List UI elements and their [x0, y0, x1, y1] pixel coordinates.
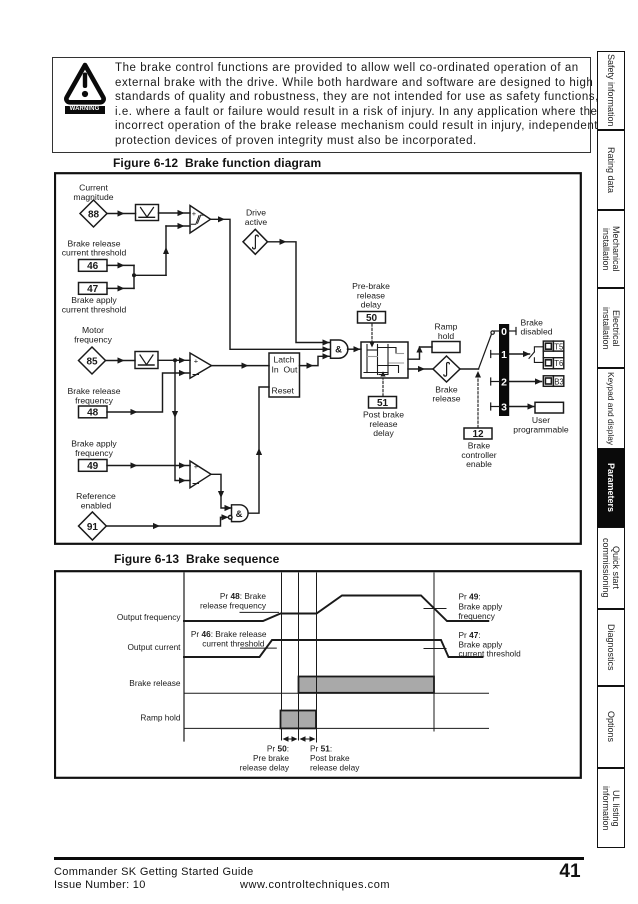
svg-text:Pr 49:: Pr 49:	[459, 592, 481, 602]
tab Diagnostics	[597, 609, 625, 687]
svg-text:delay: delay	[361, 300, 382, 310]
terminal B3	[543, 376, 564, 387]
footer rule	[54, 857, 584, 860]
label Brake release	[432, 384, 460, 403]
wire 47 to junction	[107, 285, 134, 291]
parameter 91 Reference enabled diamond	[79, 512, 107, 540]
comparator U1 (current)	[190, 206, 211, 234]
wire 49 to comparator3	[107, 462, 190, 468]
brake release bar	[299, 677, 435, 693]
svg-text:Brake release: Brake release	[129, 678, 181, 688]
wire abs2 to comparator2 with junction	[158, 357, 190, 363]
figure 6-12 title	[113, 156, 321, 170]
svg-text:Latch: Latch	[273, 354, 294, 364]
time marker t1	[281, 573, 283, 740]
tab Electrical installation	[597, 288, 625, 368]
wire Drive active to AND gate	[268, 239, 331, 346]
svg-text:Pr 48: Brake: Pr 48: Brake	[220, 591, 267, 601]
node 2 left stub	[491, 378, 499, 385]
figure 6-13 frame	[55, 571, 581, 778]
brake release baseline	[184, 692, 489, 694]
label Post brake release delay	[363, 410, 404, 439]
Drive active diamond	[243, 229, 268, 254]
wire comparator2 to Latch In	[212, 363, 270, 369]
label Brake apply frequency	[71, 439, 117, 458]
time marker t4	[433, 573, 435, 731]
selector digits	[501, 326, 507, 414]
wire node 2 to terminal B3	[509, 378, 542, 384]
svg-text:Output current: Output current	[127, 642, 181, 652]
warning box	[52, 57, 591, 153]
ramp hold baseline	[184, 727, 489, 729]
AND gate U4 (brake release logic)	[331, 340, 348, 358]
svg-text:programmable: programmable	[513, 424, 569, 434]
Pr 48 leader line	[240, 611, 279, 613]
time axis	[183, 573, 185, 741]
svg-text:+: +	[194, 462, 199, 471]
AND gate U5 (reset logic)	[228, 505, 248, 522]
magnitude block (abs2)	[135, 352, 158, 369]
svg-text:51: 51	[377, 398, 389, 409]
svg-text:current threshold: current threshold	[459, 649, 522, 659]
tab Parameters (active)	[597, 449, 625, 527]
svg-text:current threshold: current threshold	[62, 304, 127, 314]
svg-text:enabled: enabled	[81, 500, 112, 510]
FIGURE 6-13 DIAGRAM SVG	[54, 570, 582, 780]
parameter box 12	[464, 428, 492, 440]
tab Quick start commissioning	[597, 527, 625, 609]
parameter box 46	[79, 260, 108, 273]
output current waveform	[184, 640, 483, 657]
svg-text:In: In	[272, 364, 279, 374]
svg-text:release delay: release delay	[240, 763, 290, 773]
dashed wire 51 to delay block	[380, 371, 385, 396]
label Pr 48 Brake release frequency	[200, 591, 267, 611]
label Brake release current threshold	[62, 238, 127, 257]
label Pr 46 Brake release current threshold	[191, 629, 267, 649]
svg-text:12: 12	[472, 429, 484, 440]
svg-text:frequency: frequency	[459, 611, 496, 621]
svg-text:frequency: frequency	[74, 334, 112, 344]
footer text	[54, 866, 254, 878]
FIGURE 6-12 DIAGRAM SVG	[54, 172, 582, 546]
wire threshold select to comparator1	[132, 223, 190, 289]
svg-text:current threshold: current threshold	[62, 248, 127, 258]
svg-text:disabled: disabled	[521, 327, 553, 337]
wire delay block to Ramp hold	[408, 346, 432, 359]
tab Mechanical installation	[597, 210, 625, 288]
svg-text:delay: delay	[373, 428, 394, 438]
svg-text:85: 85	[86, 356, 98, 367]
Pr 47 leader line	[424, 648, 446, 650]
svg-text:Out: Out	[284, 364, 298, 374]
svg-text:88: 88	[88, 209, 100, 220]
wire 91 to AND gate2 inverted input	[106, 514, 228, 529]
time marker t3 over bar	[316, 677, 318, 693]
time marker t2 over bar	[298, 711, 300, 728]
node 0 left stub	[494, 330, 499, 332]
parameter 88 Current magnitude diamond	[80, 200, 107, 227]
svg-text:47: 47	[87, 284, 99, 295]
svg-text:1: 1	[501, 349, 507, 361]
comparator U3 (brake apply frequency)	[190, 461, 211, 488]
label Pr 49 Brake apply frequency	[459, 592, 504, 622]
svg-text:Pr 46: Brake release: Pr 46: Brake release	[191, 629, 267, 639]
svg-text:enable: enable	[466, 459, 492, 469]
svg-text:49: 49	[87, 461, 99, 472]
svg-text:B3: B3	[554, 378, 564, 387]
Latch block	[269, 353, 300, 397]
parameter box 51	[369, 397, 397, 410]
Ramp hold block	[432, 342, 460, 353]
wire node 1 to relay contact	[509, 351, 530, 357]
label Reference enabled	[76, 491, 116, 510]
parameter 85 Motor frequency diamond	[79, 347, 106, 374]
warning label	[65, 106, 105, 114]
Brake release diamond	[433, 356, 460, 382]
magnitude block (abs1)	[136, 205, 159, 221]
svg-text:&: &	[236, 509, 243, 520]
svg-text:Reset: Reset	[272, 386, 295, 396]
svg-text:Pre brake: Pre brake	[253, 753, 289, 763]
svg-text:3: 3	[501, 402, 507, 414]
tab Safety information	[597, 51, 625, 130]
time marker t2	[298, 573, 300, 740]
tab Keypad and display	[597, 368, 625, 449]
parameter box 49	[79, 460, 108, 473]
svg-text:+: +	[194, 357, 199, 366]
svg-text:T6: T6	[554, 359, 563, 368]
label User programmable	[513, 415, 569, 434]
svg-text:hold: hold	[438, 331, 454, 341]
svg-text:release: release	[432, 394, 460, 404]
parameter box 50	[358, 312, 386, 325]
svg-text:Brake apply: Brake apply	[459, 601, 504, 611]
wire junction down to comparator3	[172, 360, 190, 483]
svg-text:Ramp hold: Ramp hold	[140, 713, 181, 723]
wire AND gate to delay block	[348, 346, 362, 352]
figure 6-12 frame	[55, 173, 581, 544]
label Pr 51 Post brake release delay	[310, 744, 360, 773]
svg-text:active: active	[245, 217, 268, 227]
svg-text:46: 46	[87, 261, 99, 272]
wire comparator3 to AND gate2	[211, 474, 232, 511]
wire Brake release to switch	[460, 368, 479, 370]
label Brake controller enable	[461, 441, 496, 470]
figure 6-13 title	[114, 552, 279, 566]
svg-text:91: 91	[87, 522, 99, 533]
Pr 46 leader line	[241, 647, 277, 649]
wire 46 to junction	[107, 262, 134, 268]
svg-text:&: &	[335, 345, 342, 356]
tab UL listing information	[597, 768, 625, 848]
svg-text:+: +	[192, 209, 197, 218]
user programmable block	[535, 402, 564, 413]
label Pr 50 Pre brake release delay	[240, 744, 290, 773]
svg-text:48: 48	[87, 408, 99, 419]
svg-text:0: 0	[501, 326, 507, 338]
svg-text:Pr 51:: Pr 51:	[310, 744, 332, 754]
wire comparator1 to AND gate	[211, 216, 331, 352]
svg-text:T5: T5	[554, 343, 564, 352]
wire 48 to comparator2	[107, 370, 190, 415]
node 0 Brake disabled stub	[509, 328, 516, 335]
label Drive active	[245, 207, 268, 226]
svg-text:2: 2	[501, 377, 507, 389]
dashed wire 12 to switch	[475, 371, 481, 428]
label Brake disabled	[521, 317, 553, 336]
svg-text:release frequency: release frequency	[200, 601, 267, 611]
dashed wire 50 to delay block	[369, 324, 374, 348]
tab Options	[597, 686, 625, 768]
wire AND gate2 to Latch Reset	[248, 387, 269, 513]
terminal block T5 T6	[543, 341, 564, 369]
tab Rating data	[597, 130, 625, 210]
label Ramp hold	[435, 322, 458, 341]
svg-text:50: 50	[366, 313, 378, 324]
svg-text:Output frequency: Output frequency	[117, 612, 182, 622]
label Brake release frequency	[67, 386, 120, 405]
comparator U2 (brake release frequency)	[190, 353, 212, 378]
switch blade to position 0	[479, 331, 495, 369]
label Current magnitude	[73, 183, 113, 202]
wire Latch Out to AND gate	[300, 353, 331, 369]
wire delay block to Brake release	[408, 366, 433, 372]
label Motor frequency	[74, 325, 112, 344]
warning text	[115, 61, 593, 148]
label Brake apply current threshold	[62, 295, 127, 314]
selector bar	[499, 324, 509, 416]
dimension arrow Pr 51	[300, 736, 316, 742]
parameter box 47	[79, 283, 108, 296]
wire node 3 to user output	[509, 403, 534, 409]
time marker t3	[316, 573, 318, 742]
svg-text:current threshold: current threshold	[202, 639, 265, 649]
relay contact	[529, 347, 543, 363]
dimension arrow Pr 50	[283, 736, 298, 742]
wire 85 to abs2	[106, 357, 136, 363]
parameter box 48	[79, 406, 108, 419]
label Pre-brake release delay	[352, 281, 390, 310]
wire abs1 to comparator1	[159, 210, 191, 216]
delay block	[361, 342, 408, 378]
warning triangle icon	[62, 61, 108, 107]
svg-text:Post brake: Post brake	[310, 753, 350, 763]
page number	[550, 861, 590, 883]
node 1 left stub	[491, 351, 499, 358]
svg-text:release delay: release delay	[310, 763, 360, 773]
Pr 49 leader line	[424, 608, 446, 610]
node 3 left stub	[491, 403, 499, 410]
ramp hold bar	[281, 711, 317, 729]
wire 88 to abs1	[107, 210, 136, 216]
svg-text:frequency: frequency	[75, 448, 113, 458]
output frequency waveform	[184, 596, 488, 622]
svg-text:frequency: frequency	[75, 395, 113, 405]
label Pr 47 Brake apply current threshold	[459, 630, 522, 659]
svg-text:Pr 50:: Pr 50:	[267, 744, 289, 754]
